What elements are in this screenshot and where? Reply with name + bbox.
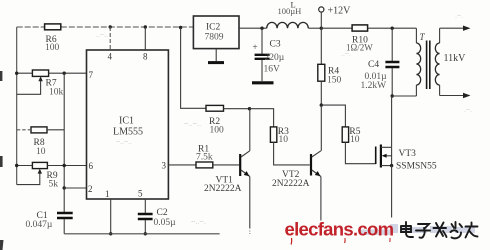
svg-text:C4: C4	[368, 60, 379, 70]
logo text: 烧 (stylised)	[451, 222, 463, 238]
svg-text:2N2222A: 2N2222A	[204, 184, 242, 194]
svg-text:T: T	[420, 32, 426, 42]
transistor VT1 2N2222A	[204, 109, 250, 234]
svg-text:SSMSN55: SSMSN55	[396, 162, 437, 172]
svg-text:C3: C3	[270, 40, 281, 50]
svg-text:..~.: ..~.	[341, 51, 351, 58]
svg-text:1.2kW: 1.2kW	[361, 81, 387, 91]
wire: IC2 output to C3 node	[239, 27, 267, 29]
node: pin1 / ground rail junction	[109, 232, 112, 235]
node: C4 bottom junction	[391, 94, 394, 97]
svg-text:~..~.: ~..~.	[191, 217, 206, 226]
resistor R8	[31, 127, 47, 157]
ground: IC2 ground symbol	[208, 49, 224, 63]
wire: R3 to VT2 base	[274, 142, 310, 165]
svg-text:5k: 5k	[49, 180, 59, 190]
svg-text:+12V: +12V	[328, 6, 352, 17]
logo text: 子 (stylised)	[416, 224, 430, 238]
resistor R4	[318, 64, 342, 85]
svg-text:10: 10	[36, 147, 46, 157]
wire: R1 to VT1 base	[213, 164, 239, 166]
wire: L to +12V node	[308, 27, 321, 29]
node: pin2/C1 junction	[62, 186, 65, 189]
wire: rail drop to R2	[181, 28, 206, 109]
svg-text:~..~..: ~..~..	[116, 139, 132, 146]
node: C2 / ground rail junction	[144, 232, 147, 235]
transistor VT2 2N2222A	[272, 151, 321, 221]
capacitor C3 (electrolytic)	[253, 28, 285, 81]
svg-text:4: 4	[108, 52, 113, 62]
op-amp/timer IC1 LM555 box	[87, 50, 169, 199]
capacitor C4	[361, 28, 400, 96]
svg-text:1: 1	[105, 189, 110, 199]
wire: ground rail	[64, 233, 219, 235]
wire: HV output top with arrow	[440, 26, 471, 31]
svg-text:11kV: 11kV	[444, 53, 467, 64]
node: C3 junction	[260, 27, 263, 30]
wire: R8 leads	[17, 129, 31, 131]
node: junction pin4 rail	[109, 25, 112, 28]
wire: pin 2 lead	[64, 187, 86, 189]
regulator IC2 7809	[193, 16, 239, 49]
wire: pin 4 drop	[109, 27, 111, 50]
node: +12V junction	[320, 27, 323, 30]
wire: HV output bottom with arrow	[440, 93, 471, 98]
resistor R5	[342, 127, 361, 145]
inductor L 100uH	[267, 0, 309, 28]
svg-text:7.5k: 7.5k	[196, 152, 213, 162]
transformer T primary winding	[416, 28, 425, 96]
wire: R9 leads	[17, 165, 87, 167]
wire: R5 to VT3 gate	[345, 142, 375, 163]
svg-text:elecfans.com: elecfans.com	[285, 219, 394, 240]
svg-text:..~..: ..~..	[96, 32, 108, 39]
resistor R3	[270, 127, 289, 145]
node: R7 right junction	[62, 72, 65, 75]
logo text: 发 (stylised)	[434, 223, 447, 238]
svg-text:100: 100	[45, 43, 60, 53]
node: junction pin8 rail	[144, 25, 147, 28]
watermark smudge left edge top	[0, 71, 2, 81]
svg-text:10: 10	[279, 135, 289, 145]
node: VT1 collector junction	[248, 107, 251, 110]
svg-text:.~.: .~.	[464, 107, 472, 114]
wire: node down to VT2 collector	[320, 105, 322, 151]
faint blue watermark behind logos	[360, 224, 475, 235]
svg-text:IC1: IC1	[119, 116, 134, 127]
wire: pin 8 drop	[144, 27, 146, 50]
node: R4/R5/VT2 junction	[320, 103, 323, 106]
wire: R9 wiper arm	[17, 169, 42, 185]
wire: pin 3 to R1	[168, 164, 196, 166]
wire: vertical R7right-R8right-pin2	[63, 73, 65, 188]
svg-text:C2: C2	[157, 208, 168, 218]
node: R9 right junction	[62, 164, 65, 167]
watermark smudge left edge bottom	[0, 240, 4, 250]
wire: node to R5	[321, 105, 345, 127]
transformer core	[427, 41, 430, 90]
watermark smudge left edge middle	[0, 156, 3, 167]
resistor R2	[206, 105, 224, 135]
svg-text:0.047µ: 0.047µ	[26, 220, 53, 230]
transformer T secondary winding	[435, 28, 466, 95]
svg-text:8: 8	[143, 52, 148, 62]
svg-text:16V: 16V	[264, 65, 281, 75]
capacitor C1	[26, 188, 73, 234]
wire: R2 to collector node	[224, 108, 250, 110]
logo elecfans.com	[285, 219, 394, 245]
resistor R7 (rheostat)	[32, 70, 63, 98]
wire: R10 to C4 node and transformer	[368, 27, 417, 29]
svg-text:LM555: LM555	[113, 127, 143, 138]
svg-text:7809: 7809	[205, 32, 224, 42]
svg-text:100µH: 100µH	[278, 6, 302, 16]
ground: C3 ground symbol	[252, 81, 274, 84]
node: R7 left junction	[15, 72, 18, 75]
svg-text:10: 10	[350, 135, 360, 145]
wire: node to R3	[250, 109, 274, 127]
wire: R4 to VT2 collector node	[320, 81, 322, 105]
svg-text:220µ: 220µ	[265, 53, 285, 63]
wire: left rail vertical	[16, 27, 18, 185]
resistor R1	[196, 144, 213, 168]
wire: top supply rail (R6 to IC2)	[17, 26, 194, 28]
node: C4 top junction	[391, 27, 394, 30]
svg-text:+: +	[253, 42, 258, 52]
resistor R10	[346, 25, 373, 52]
svg-text:7: 7	[89, 70, 94, 80]
wire: C4 bottom to transformer primary bottom	[392, 95, 416, 97]
terminal +12V	[319, 6, 351, 29]
svg-text:10k: 10k	[49, 88, 64, 98]
svg-text:0.05µ: 0.05µ	[154, 218, 177, 228]
svg-text:5: 5	[138, 189, 143, 199]
capacitor C2	[138, 208, 176, 234]
wire: pin 1 drop	[110, 199, 112, 234]
node: junction R2-drop / IC2 input	[179, 26, 182, 29]
svg-text:100: 100	[210, 126, 225, 136]
wire: pin 5 drop	[144, 199, 146, 213]
wire: +12V node to R10	[321, 27, 352, 29]
svg-text:2N2222A: 2N2222A	[272, 179, 310, 189]
svg-text:3: 3	[162, 161, 167, 171]
resistor R9 (rheostat)	[32, 162, 58, 189]
wire: R4 drop from +12V node	[320, 28, 322, 64]
svg-text:VT3: VT3	[399, 149, 417, 159]
transistor VT3 SSMSN55 (MOSFET)	[376, 96, 437, 218]
svg-text:6: 6	[89, 161, 94, 171]
node: R9 left junction	[15, 164, 18, 167]
wire: R7 wiper arm	[17, 76, 43, 94]
svg-text:IC2: IC2	[206, 23, 221, 33]
svg-text:2: 2	[88, 184, 93, 194]
logo text: 电 (stylised)	[401, 222, 413, 237]
wire: R7 leads	[17, 72, 87, 74]
svg-text:~..~..: ~..~..	[184, 119, 201, 128]
svg-text:.~.: .~.	[455, 13, 463, 20]
resistor R6	[45, 24, 61, 53]
svg-text:150: 150	[327, 76, 342, 86]
logo text: 友 (stylised)	[466, 223, 478, 238]
